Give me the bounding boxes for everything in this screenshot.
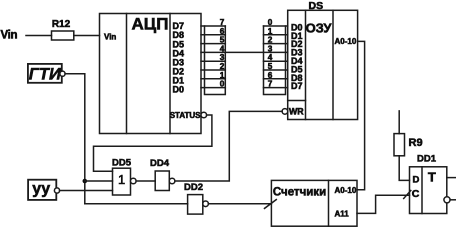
pin DD5 output bubble [131, 178, 137, 184]
svg-text:0: 0 [268, 18, 273, 27]
svg-text:Счетчики: Счетчики [273, 186, 326, 198]
svg-text:7: 7 [268, 80, 273, 89]
pin counters dynamic input slash [265, 200, 277, 209]
resistor R12 [52, 31, 74, 40]
svg-text:4: 4 [268, 53, 273, 62]
wire STATUS feedback to DD5 upper input [94, 115, 212, 171]
node junction dot ГТИ branch [83, 179, 88, 184]
svg-text:0: 0 [220, 80, 225, 89]
wire RAM D6 from bus [264, 78, 288, 80]
svg-text:DD5: DD5 [112, 158, 132, 169]
svg-text:T: T [428, 169, 436, 184]
wire R9 to DD1 D input [399, 156, 409, 181]
node right bus ladder frame [264, 26, 286, 95]
pin УУ output bubble [54, 188, 59, 193]
svg-text:2: 2 [220, 62, 225, 71]
wire DD5 to DD4 [136, 180, 155, 182]
wire ГТИ bottom run to DD2 [85, 203, 188, 205]
inverter DD2 [188, 195, 203, 215]
wire УУ to DD5 lower input [60, 190, 113, 192]
wire counters A11 to DD1 C input [357, 195, 410, 213]
svg-text:R12: R12 [52, 19, 71, 30]
wire RAM D1 from bus [264, 34, 288, 36]
wire RAM D0 from bus [264, 25, 288, 27]
wire Vin to R12 [26, 35, 52, 37]
wire ADC D5 to bus [201, 43, 225, 45]
wire ADC D7 to bus [201, 25, 225, 27]
svg-text:2: 2 [268, 36, 273, 45]
inverter DD4 [155, 171, 169, 191]
svg-text:A0-10: A0-10 [335, 186, 357, 195]
wire R9 pullup stub [398, 111, 400, 134]
wire DD4 to RAM WR [175, 111, 282, 181]
resistor R9 [394, 134, 405, 156]
svg-text:DD1: DD1 [417, 153, 437, 164]
wire RAM D4 from bus [264, 60, 288, 62]
wire DD2 to counters [208, 203, 271, 205]
wire ADC D2 to bus [201, 69, 225, 71]
wire junction to DD5 middle input [85, 180, 113, 182]
pin DD2 output bubble [203, 201, 209, 207]
svg-text:Vin: Vin [104, 32, 116, 41]
wire bus trunk D4 row full [201, 51, 288, 53]
wire DD1 Q output [447, 177, 456, 179]
wire ADC D0 to bus [201, 87, 225, 89]
wire RAM WR cell divider [288, 100, 306, 102]
svg-text:WR: WR [289, 107, 304, 117]
svg-text:C: C [412, 188, 420, 200]
svg-text:7: 7 [220, 18, 225, 27]
wire ADC D3 to bus [201, 60, 225, 62]
svg-text:DD2: DD2 [184, 182, 203, 193]
pin STATUS inversion bubble [201, 112, 207, 118]
svg-text:D7: D7 [291, 81, 303, 91]
node left bus bit numbers [220, 18, 225, 89]
svg-text:ГТИ: ГТИ [29, 65, 62, 83]
IC RAM block ОЗУ (DS) [288, 10, 358, 119]
svg-text:STATUS: STATUS [170, 111, 201, 120]
wire RAM D5 from bus [264, 69, 288, 71]
wire ГТИ output down [65, 74, 85, 204]
svg-text:A11: A11 [335, 209, 350, 218]
pin DD4 output bubble [169, 178, 175, 184]
wire ADC D6 to bus [201, 34, 225, 36]
svg-text:6: 6 [220, 27, 225, 36]
pin DD1 C dynamic input slash [404, 191, 411, 199]
svg-text:Vin: Vin [1, 30, 18, 42]
svg-text:3: 3 [220, 53, 225, 62]
wire RAM D2 from bus [264, 43, 288, 45]
svg-text:3: 3 [268, 44, 273, 53]
svg-text:4: 4 [220, 44, 225, 53]
logic gate DD5 [113, 168, 131, 195]
wire DD1 inverted output [450, 199, 456, 201]
svg-text:6: 6 [268, 71, 273, 80]
wire RAM D7 from bus [264, 87, 288, 89]
wire counters A0-10 to RAM A0-10 [357, 41, 365, 189]
svg-text:A0-10: A0-10 [335, 37, 357, 46]
svg-text:АЦП: АЦП [132, 15, 169, 34]
svg-text:ОЗУ: ОЗУ [306, 20, 333, 35]
pin ГТИ output bubble [60, 71, 65, 76]
pin WR inversion bubble [282, 109, 288, 115]
svg-text:5: 5 [220, 36, 225, 45]
svg-text:1: 1 [220, 71, 225, 80]
node right bus bit numbers [268, 18, 273, 89]
svg-text:1: 1 [118, 172, 125, 187]
svg-text:5: 5 [268, 62, 273, 71]
svg-text:уу: уу [32, 181, 50, 198]
IC ADC block АЦП [100, 14, 202, 134]
svg-text:D0: D0 [173, 85, 185, 95]
svg-text:D: D [412, 174, 419, 185]
wire ADC D1 to bus [201, 78, 225, 80]
control unit УУ box [28, 180, 56, 200]
svg-text:R9: R9 [409, 137, 423, 149]
generator G1 ГТИ box [28, 64, 62, 83]
counters block Счетчики [271, 180, 357, 226]
wire R12 to ADC Vin pin [74, 35, 100, 37]
svg-text:DD4: DD4 [150, 158, 170, 169]
flip-flop DD1 T [410, 167, 447, 214]
node left bus ladder frame [205, 26, 226, 95]
pin DD1 inverted output bubble [444, 197, 450, 203]
svg-text:1: 1 [268, 27, 273, 36]
